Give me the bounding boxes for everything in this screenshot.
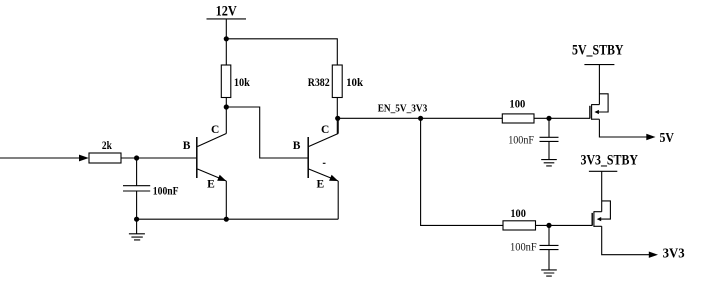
mosfet Q3 body loop [599,94,609,112]
node T1 collector junction [224,104,229,109]
wire C2 to ground [548,141,550,159]
resistor R1 10k body [221,65,231,98]
svg-text:100nF: 100nF [510,242,537,254]
mosfet Q4 channel bar [593,211,595,227]
svg-text:B: B [183,140,191,152]
mosfet Q3 drain stub [592,118,600,120]
transistor Q2 base bar [307,137,309,178]
wire input [0,157,80,159]
wire Q4 drain down to 3V3 [602,226,650,254]
node C3 junction [546,223,551,228]
capacitor C3 plate top [540,244,559,246]
svg-text:100nF: 100nF [508,135,534,147]
node input junction [134,155,139,160]
arrowhead input [79,155,89,162]
svg-text:E: E [207,179,215,191]
wire T1 collector to T2 base [226,107,307,158]
power bar 3V3_STBY [589,170,617,172]
resistor R382 body [332,65,342,98]
node 12V junction [224,36,229,41]
wire Q1 emitter stub [225,181,227,219]
ground G2 [541,160,557,166]
ground G1 [129,234,145,240]
node C2 junction [546,116,551,121]
wire C1 to ground node [136,191,138,234]
wire Q2 collector stub [337,118,339,133]
node ground junction [134,217,139,222]
svg-text:100nF: 100nF [153,184,179,198]
wire junction to capacitor C1 [136,158,138,186]
mosfet Q3 body arrow [594,110,599,114]
wire EN branch down [421,118,503,225]
svg-text:12V: 12V [216,4,238,20]
svg-text:10k: 10k [234,75,250,89]
svg-text:5V_STBY: 5V_STBY [572,43,624,59]
svg-text:100: 100 [510,206,526,220]
power bar 5V_STBY [584,64,614,66]
mosfet Q3 gate bar [589,106,591,119]
wire Q2 emitter stub [337,181,339,219]
arrowhead 5V [646,134,655,140]
power bar 12V [207,18,247,20]
transistor Q2 emitter diagonal [309,169,339,181]
svg-text:C: C [321,124,329,136]
capacitor C1 plate top [123,185,150,187]
svg-text:B: B [293,140,301,152]
wire R1 bottom to T1 collector [225,98,227,134]
capacitor C1 plate bottom [123,190,150,192]
capacitor C2 plate top [540,136,559,138]
wire R382 bottom to T2 collector / EN node [336,98,338,134]
resistor R4 100 body [503,221,536,230]
mosfet Q4 source stub [594,211,602,213]
svg-text:2k: 2k [102,140,112,152]
resistor R2 2k body [89,153,121,163]
svg-text:5V: 5V [660,131,675,146]
wire top rail to R382 [226,39,337,65]
wire 2k to T1 base [121,157,196,159]
ground G3 [541,270,557,276]
capacitor C3 plate bottom [540,249,559,251]
svg-text:100: 100 [509,97,525,111]
wire Q3 drain down to 5V [599,119,646,137]
wire 5V_STBY to Q3 source [598,65,600,105]
mosfet Q3 channel bar [591,104,593,120]
transistor Q1 emitter arrow [217,175,226,181]
transistor Q1 emitter diagonal [198,169,227,181]
svg-text:E: E [317,179,325,191]
transistor Q1 collector diagonal [198,134,227,147]
mosfet Q4 body loop [601,201,611,219]
wire C3 to ground [548,250,550,270]
mosfet Q4 gate bar [591,213,593,226]
transistor Q2 emitter arrow [329,175,338,181]
mosfet Q4 drain stub [594,225,602,227]
wire C3 stem top [548,225,550,245]
wire EN net [338,117,502,119]
mosfet Q4 body arrow [597,217,602,221]
stray dash mark [323,162,326,164]
wire emitter rail [137,218,339,220]
svg-text:10k: 10k [346,75,363,89]
capacitor C2 plate bottom [540,140,559,142]
transistor Q2 collector diagonal [309,134,339,147]
node EN branch junction [418,116,423,121]
wire C2 stem top [548,118,550,137]
wire R3 to Q3 gate [534,117,590,119]
transistor Q1 base bar [196,137,198,178]
wire 3V3_STBY to Q4 source [601,171,603,211]
node EN junction at R382 [335,116,340,121]
wire 12V vertical to resistor R1 top [225,19,227,65]
svg-text:3V3: 3V3 [663,247,685,262]
svg-text:EN_5V_3V3: EN_5V_3V3 [378,102,428,114]
mosfet Q3 source stub [592,104,600,106]
svg-text:C: C [211,124,219,136]
arrowhead 3V3 [649,252,658,258]
node T1 emitter junction [224,217,229,222]
wire R4 to Q4 gate [536,224,593,226]
resistor R3 100 body [502,114,534,123]
svg-text:3V3_STBY: 3V3_STBY [581,153,639,169]
svg-text:R382: R382 [308,75,330,89]
